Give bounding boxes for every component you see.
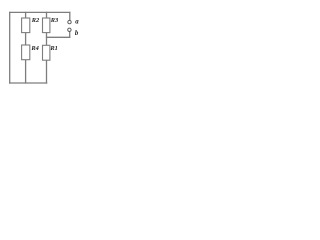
wire R2 top lead <box>25 12 27 18</box>
svg-text:R4: R4 <box>30 45 38 52</box>
wire node-b vertical riser <box>69 32 71 38</box>
wire R3-R1 series lead <box>46 33 48 46</box>
wire terminal-a drop <box>69 12 71 20</box>
wire R2-R4 series lead <box>25 33 27 45</box>
terminal b circle <box>68 28 71 31</box>
svg-text:R3: R3 <box>50 17 59 24</box>
resistor R4 body <box>22 45 30 60</box>
terminal a circle <box>68 20 71 23</box>
resistor R3 body <box>43 18 50 33</box>
resistor R2 body <box>22 18 30 33</box>
wire bottom horizontal <box>10 82 47 84</box>
svg-text:R2: R2 <box>31 17 40 24</box>
wire R3 top lead <box>46 12 48 18</box>
svg-text:b: b <box>75 30 79 37</box>
wire left vertical <box>9 12 11 83</box>
resistor R1 body <box>43 45 50 60</box>
svg-text:a: a <box>75 19 79 26</box>
svg-text:R1: R1 <box>49 45 57 52</box>
wire node-b horizontal tap <box>47 36 70 38</box>
wire R4 bottom lead <box>25 60 27 83</box>
wire top horizontal <box>10 11 70 13</box>
wire R1 bottom lead <box>46 60 48 83</box>
